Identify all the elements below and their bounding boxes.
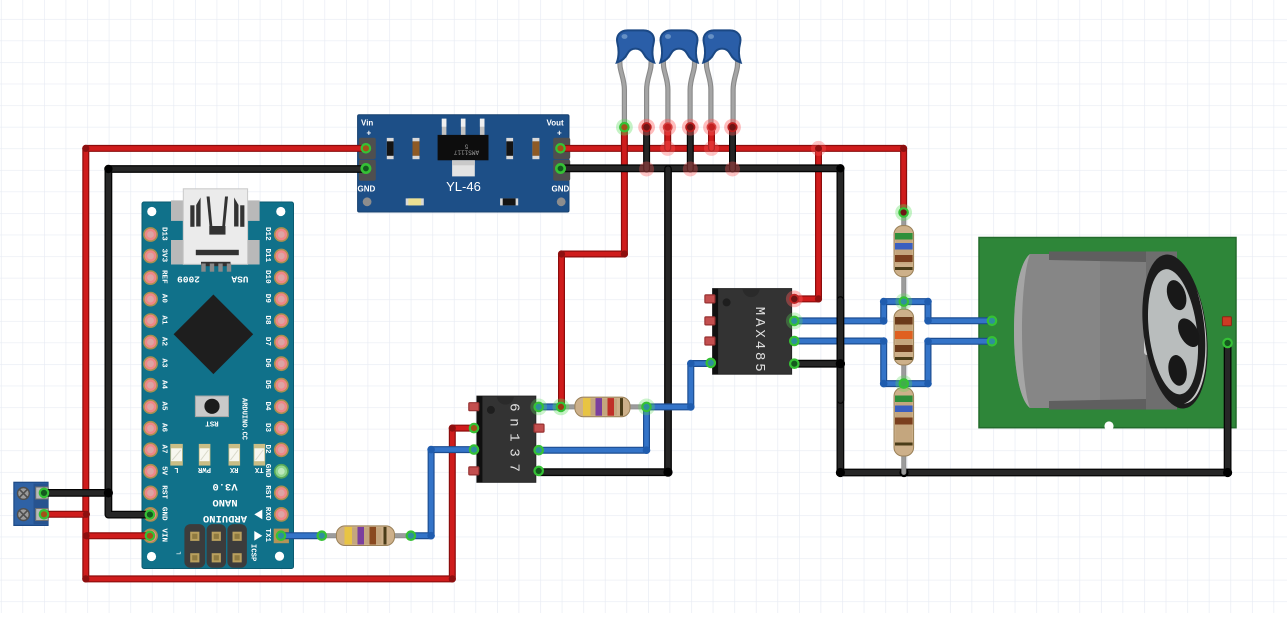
wire lead resistor chain [901,212,906,473]
svg-text:RX: RX [229,465,238,473]
wire black GND left rail [108,169,366,515]
wire black GND right rail to motor [561,168,1228,472]
SMD resistor R-brown left [413,138,420,159]
wire lead mid resistor [561,404,647,409]
wire black C2b stub [687,127,694,169]
ICSP header [184,524,247,568]
YL-46 AMS1117 power module board [358,115,569,212]
svg-text:ARDUINO.CC: ARDUINO.CC [240,398,248,440]
pad motor GND [1223,339,1231,347]
corner black motor elbow [1223,468,1232,477]
pad 6n137 pin2 (anode) [470,424,478,432]
RST button [195,396,228,417]
6n137 pin7 (unconnected) [534,424,544,432]
junction red terminal [83,511,90,518]
svg-text:A1: A1 [160,315,168,325]
svg-text:NANO: NANO [212,496,237,508]
junction red MAX485 branch [815,145,822,152]
wire blue TX1 to R4 [281,532,322,539]
corner blue B3 [924,380,932,388]
6n137 pin1 (unconnected) [469,403,479,411]
svg-text:RST: RST [263,485,271,499]
corner red MAX485 elbow [815,295,822,302]
USB shield tabs [171,200,260,264]
IC 6n137 U5 [471,396,542,482]
SMD capacitor C-black right [506,138,513,159]
motor body [1014,251,1216,413]
corner red bottom-left [82,575,89,582]
svg-text:D7: D7 [263,337,271,347]
wire red +5V left rail to Vin [86,148,472,579]
wire red C2 stub [664,127,671,148]
pad YL-46 Vout [556,144,564,152]
pad Arduino GND pin [146,510,154,518]
screw terminal J2 [14,482,48,525]
corner blue A1 [880,317,888,325]
wire black 6n137 GND branch [540,169,668,472]
wire red battery + from terminal [44,511,87,518]
junction blue node [687,403,695,411]
svg-text:A3: A3 [160,358,168,368]
pad YL-46 GND-out [556,164,564,172]
pad C3 leg+ [703,119,720,136]
svg-text:ARDUINO: ARDUINO [203,512,247,524]
SMD resistor R-brown right [532,138,539,159]
wire red +5V right rail [561,148,904,211]
svg-text:D8: D8 [263,315,271,325]
wire black C1b stub [643,127,650,169]
YL-46 labels [358,119,570,194]
pad R chain top (+5V) [895,204,912,221]
corner red 6n137 pin2 elbow [449,425,456,432]
junction halo C2+ on 5V rail [660,141,675,156]
wire blue RS485 B to motor [796,341,991,384]
corner black rail bottom [836,468,845,477]
svg-text:GND: GND [552,185,570,194]
svg-text:GND: GND [160,507,168,521]
pad MAX485 pin4 (blue) [707,359,715,367]
svg-text:A7: A7 [160,445,168,455]
svg-text:3V3: 3V3 [160,249,168,263]
svg-text:⌐: ⌐ [176,548,181,558]
svg-text:+: + [367,129,372,138]
junction black MAX485 GND [836,359,845,368]
motor end cap [1134,251,1215,413]
svg-text:AMS1117: AMS1117 [454,149,480,156]
resistor R2 (termination) [894,309,914,365]
junction black terminal [104,488,113,497]
corner blue A2 [880,298,888,306]
corner black rail right [836,164,844,172]
svg-text:MAX485: MAX485 [751,307,767,375]
wire black MAX485 GND [796,360,841,368]
corner blue A3 [924,298,932,306]
6n137 pin4 (unconnected) [469,467,479,475]
corner blue A4 [924,317,932,325]
svg-text:A4: A4 [160,380,168,390]
ATmega chip (diamond) [174,295,254,375]
svg-text:Vout: Vout [547,119,565,128]
pad Arduino TX1 pin [277,532,285,540]
wire black C3b stub [729,127,736,169]
corner blue B1 [880,337,888,345]
svg-text:5: 5 [464,143,468,150]
pad MAX485 pin5 (GND) [790,360,798,368]
svg-text:RXO: RXO [263,507,271,521]
pad R5 left (node 5V/opto) [553,399,570,416]
pad R chain B rail [895,375,912,392]
Arduino Nano U3 board [142,202,294,569]
MAX485 pin1 (unconnected) [705,295,715,303]
wire red branch to MAX485 pin8 [796,148,819,299]
svg-text:+: + [557,129,562,138]
corner blue MAX485 elbow [687,360,695,368]
junction red VIN [83,532,90,539]
pad 6n137 pin5 (GND) [535,467,543,475]
wire blue node to MAX485 pin4 [647,364,710,407]
Arduino right pin labels [263,227,271,543]
Arduino left pin labels [160,227,168,543]
junction black MAX485 GND overlay [836,359,845,368]
svg-text:A5: A5 [160,402,168,412]
junction halo C3+ on 5V rail [704,141,719,156]
pad C3 leg- [724,119,741,136]
wire black battery - from terminal [44,489,108,497]
motor board mounting hole [1104,421,1113,430]
pad MAX485 pin7 (A) [786,313,803,330]
resistor R3 (bias pull-down) [894,388,914,457]
capacitor C1 [617,30,654,123]
junction halo C3- on GND rail [725,162,740,177]
corner blue B4 [924,338,932,346]
wire blue node to 6n137 pin6 [540,407,647,450]
junction halo C2- on GND rail [683,162,698,177]
pad MAX485 pin6 (B) [790,337,798,345]
MAX485 pin2 (unconnected) [705,317,715,325]
YL-46 pin housings [359,138,570,181]
wire black rail overlay segment [837,300,845,400]
svg-text:D12: D12 [263,227,271,241]
resistor R4 (TX series) [336,526,394,546]
svg-text:A0: A0 [160,294,168,304]
svg-text:V3.0: V3.0 [212,480,237,492]
pad YL-46 Vin [362,144,370,152]
triangle marker RXO [254,510,262,520]
pad R4 right [407,532,415,540]
pad terminal VCC [40,510,48,518]
svg-text:2009: 2009 [177,274,200,285]
junction halo MAX485 branch on 5V rail [811,141,826,156]
pad 6n137 pin8 (Vcc) [530,399,547,416]
IC MAX485 U4 [707,289,798,375]
SMD capacitor C-black left [387,138,394,159]
wire red from C1 to 6n137 node [562,127,625,404]
svg-text:YL-46: YL-46 [446,179,481,194]
wire blue 6n137 pin8 to node [540,403,561,410]
svg-text:RST: RST [205,419,219,427]
YL-46 corner pads [363,197,566,206]
wire lead TX resistor [322,533,411,538]
pad C1 leg- [638,119,655,136]
wire blue R4 to 6n137 pin3 [411,450,472,536]
svg-text:D10: D10 [263,270,271,284]
junction halo C1- on GND rail [639,162,654,177]
svg-text:PWR: PWR [197,465,211,473]
AMS1117 regulator U2 [438,119,489,177]
svg-text:A6: A6 [160,423,168,433]
corner red C1 elbow2 [558,250,565,257]
svg-text:GND: GND [358,185,376,194]
pad 6n137 pin6 (Vo) [535,446,543,454]
svg-text:D4: D4 [263,402,271,412]
pad motor A [988,317,996,325]
pad MAX485 pin8 (red wire) [786,291,803,308]
svg-text:REF: REF [160,270,168,284]
corner red bottom-right [449,575,456,582]
pad C2 leg- [682,119,699,136]
svg-text:D9: D9 [263,294,271,304]
svg-text:L: L [174,465,178,473]
corner red resistor chain [900,145,907,152]
connector holes [1163,278,1190,313]
resistor R5 (opto series) [575,397,630,417]
corner blue pin6 elbow [643,446,651,454]
SMD diode yellow [406,198,424,205]
pad 6n137 pin3 (cathode) [470,445,478,453]
triangle marker TX1 [254,531,262,541]
svg-text:6n137: 6n137 [505,403,521,479]
pad R chain A rail [895,293,912,310]
svg-text:USA: USA [231,274,248,285]
motor encoder PCB [979,238,1236,428]
capacitor C3 [703,30,740,123]
Arduino pin pads left column [144,228,157,543]
svg-text:A2: A2 [160,337,168,347]
pad YL-46 GND-in [362,164,370,172]
pad C2 leg+ [659,119,676,136]
motor board LED [1222,317,1231,326]
corner blue TX elbow1 [427,532,435,540]
svg-text:TX: TX [254,465,263,473]
wire red VIN feed [87,532,150,539]
corner red top-left [82,145,89,152]
svg-text:VIN: VIN [160,528,168,542]
svg-text:D13: D13 [160,227,168,241]
mini-USB connector [183,189,247,272]
corner blue TX elbow2 [427,446,435,454]
pad R4 left [318,532,326,540]
Arduino pin pads right column [274,228,289,543]
wire blue RS485 A to motor [796,302,991,321]
svg-text:D5: D5 [263,380,271,390]
pad terminal GND [40,489,48,497]
SMD LEDs L PWR RX TX [170,444,265,466]
corner black top-left [104,165,112,173]
svg-text:5V: 5V [160,466,168,476]
corner red C1 elbow1 [621,250,628,257]
svg-text:ICSP: ICSP [249,544,257,562]
pad Arduino VIN pin [146,532,154,540]
svg-text:D6: D6 [263,358,271,368]
mounting holes [147,207,286,561]
svg-text:D11: D11 [263,249,271,263]
pad C1 leg+ (to 5V net) [616,119,633,136]
resistor R1 (bias pull-up) [894,226,914,277]
pad R5 right [638,399,655,416]
junction black resistor chain [899,468,908,477]
SMD diode black [500,198,518,205]
svg-text:D3: D3 [263,423,271,433]
svg-text:Vin: Vin [361,119,373,128]
capacitor C2 [660,30,697,123]
MAX485 pin3 (unconnected) [705,337,715,345]
svg-text:TX1: TX1 [263,528,271,542]
corner black 6n137 elbow [663,468,672,477]
corner blue B2 [880,380,888,388]
wire red C3 stub [708,127,715,148]
pad motor B [988,337,996,345]
svg-text:RST: RST [160,485,168,499]
